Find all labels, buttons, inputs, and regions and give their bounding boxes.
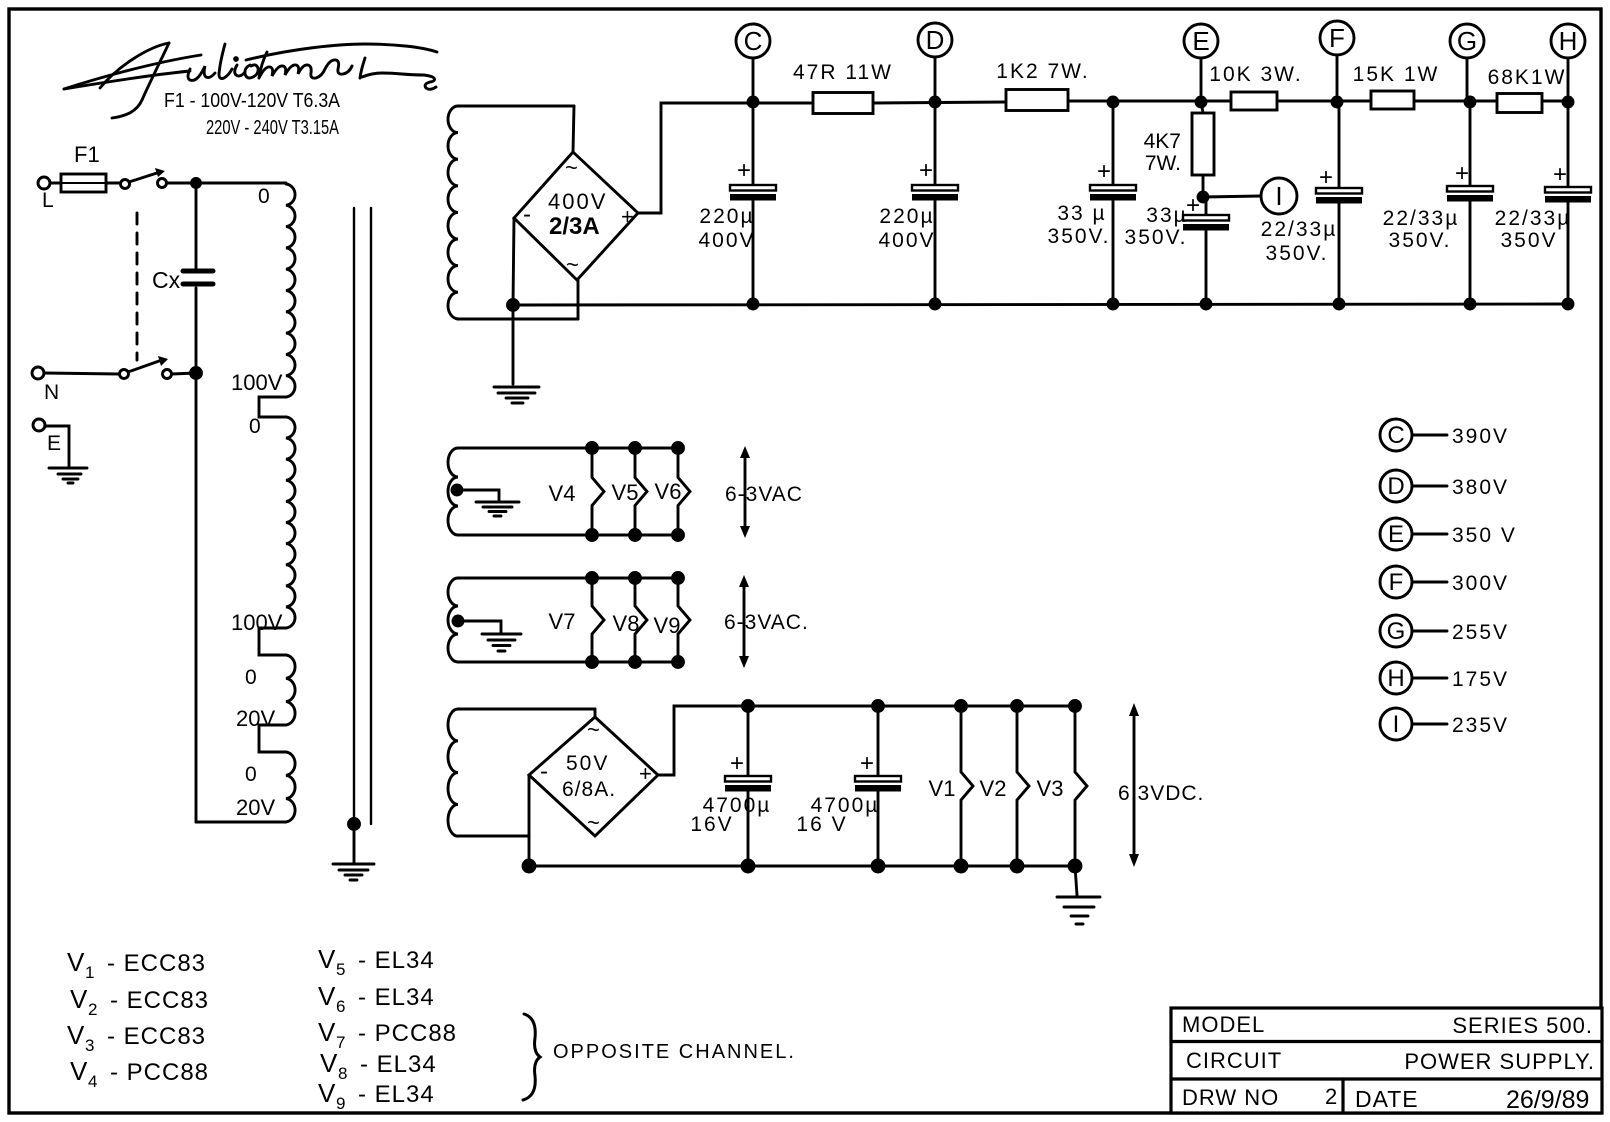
capacitor 22/33u 350V at node H [1495, 101, 1591, 304]
tube list V2 ECC83 [70, 984, 209, 1019]
title block text DRW NO 2 [1182, 1084, 1337, 1110]
heater V9 [654, 578, 690, 662]
node BR2 minus junction [523, 860, 535, 872]
svg-text:26/9/89: 26/9/89 [1506, 1086, 1589, 1114]
title block text CIRCUIT / POWER SUPPLY [1186, 1048, 1595, 1074]
svg-text:V9: V9 [654, 613, 681, 638]
node I [1203, 178, 1297, 214]
svg-text:V5: V5 [612, 480, 639, 505]
svg-text:400V: 400V [548, 189, 607, 214]
title block text DATE 26/9/89 [1355, 1086, 1589, 1114]
svg-text:DRW NO: DRW NO [1182, 1085, 1279, 1110]
svg-text:68K1W: 68K1W [1488, 66, 1567, 89]
heater V4 [549, 448, 604, 535]
node heater2 centre tap [453, 616, 463, 626]
heater V3 [1037, 706, 1087, 866]
svg-text:0: 0 [249, 415, 261, 438]
node H [1551, 24, 1585, 103]
svg-text:9: 9 [336, 1094, 345, 1113]
svg-text:I: I [1275, 181, 1282, 211]
svg-text:V: V [67, 947, 85, 977]
label F1 fuse ratings (handwritten) [164, 90, 341, 139]
svg-text:22/33µ: 22/33µ [1383, 207, 1460, 230]
capacitor 22/33u 350V at node F [1261, 101, 1362, 304]
capacitor 22/33u 350V at node G [1383, 101, 1493, 304]
svg-text:~: ~ [587, 717, 600, 742]
svg-text:- EL34: - EL34 [358, 1081, 435, 1108]
capacitor 220u 400V at node D [878, 102, 958, 304]
svg-text:+: + [737, 157, 751, 184]
svg-text:- PCC88: - PCC88 [110, 1059, 209, 1086]
wire BR2 - down to DC bottom rail [528, 775, 531, 866]
svg-text:H: H [1559, 26, 1578, 56]
svg-text:20V: 20V [236, 795, 275, 820]
svg-text:C: C [744, 26, 763, 56]
transformer LT winding (DC heaters) [448, 709, 595, 836]
heater V7 [549, 578, 604, 662]
tube list V4 PCC88 [70, 1056, 209, 1091]
node heater1 centre tap [452, 485, 462, 495]
svg-text:F: F [1329, 23, 1345, 53]
tube list V9 EL34 [318, 1078, 435, 1113]
dimension arrow 6.3VDC [1118, 703, 1204, 867]
svg-text:V: V [320, 1048, 338, 1078]
wire switch to junction [172, 373, 196, 374]
ground (mains earth) [49, 468, 87, 483]
svg-text:350V.: 350V. [1266, 242, 1329, 265]
wire BR1 - to bottom rail and ground [513, 218, 514, 384]
svg-text:350 V: 350 V [1452, 524, 1517, 547]
bridge rectifier BR2 50V 6/8A [529, 709, 658, 836]
svg-text:-: - [523, 201, 531, 228]
logo text Audio Innovations (handwritten signature) [64, 43, 437, 118]
ground (heater winding 1) [476, 502, 519, 516]
svg-text:33 µ: 33 µ [1057, 202, 1106, 225]
wire DC 0V to ground [1075, 866, 1077, 895]
transformer core [354, 208, 371, 824]
svg-text:0: 0 [258, 185, 270, 208]
svg-text:V2: V2 [980, 776, 1007, 801]
svg-text:235V: 235V [1452, 714, 1509, 737]
svg-text:-: - [540, 758, 548, 785]
svg-text:3: 3 [85, 1036, 94, 1055]
svg-text:DATE: DATE [1355, 1086, 1419, 1112]
heater V5 [612, 448, 647, 535]
junction dot 4K7/I [1198, 192, 1208, 202]
junction dots heater2 [587, 573, 684, 668]
label OPPOSITE CHANNEL [553, 1041, 796, 1063]
svg-text:16 V: 16 V [796, 813, 847, 836]
tube list V8 EL34 [320, 1048, 437, 1083]
svg-text:20V: 20V [236, 706, 275, 731]
heater V1 [929, 706, 973, 866]
svg-text:380V: 380V [1452, 476, 1509, 499]
terminal L [38, 177, 54, 212]
capacitor 33u 350V at node I [1125, 192, 1229, 304]
bridge rectifier BR1 400V 2/3A [514, 106, 638, 319]
switch S1a (live) [121, 168, 167, 189]
svg-text:6: 6 [336, 997, 345, 1016]
svg-text:220µ: 220µ [879, 205, 934, 228]
svg-text:47R 11W: 47R 11W [793, 61, 893, 84]
svg-text:V6: V6 [655, 479, 682, 504]
ground (DC heater 0V) [1057, 897, 1100, 924]
wire BR1 + output to top rail [638, 103, 813, 213]
primary tap labels [231, 185, 283, 820]
svg-text:400V: 400V [698, 229, 755, 252]
resistor 1K2 7W [996, 60, 1089, 111]
svg-text:+: + [639, 761, 652, 786]
svg-text:G: G [1387, 618, 1406, 645]
svg-text:16V: 16V [690, 813, 733, 836]
svg-text:E: E [1192, 26, 1209, 56]
resistor 68K 1W [1488, 66, 1567, 113]
svg-text:10K 3W.: 10K 3W. [1209, 63, 1302, 86]
wire DC bottom rail [529, 865, 1075, 868]
node legend D voltage [1380, 470, 1509, 502]
svg-text:~: ~ [565, 155, 578, 180]
node E [1184, 24, 1218, 103]
svg-text:N: N [44, 381, 59, 404]
heater V6 [655, 448, 690, 535]
svg-text:V: V [67, 1020, 85, 1050]
tube list V6 EL34 [318, 981, 435, 1016]
svg-text:4K7: 4K7 [1144, 130, 1181, 153]
svg-text:7: 7 [336, 1033, 345, 1052]
svg-text:Cx: Cx [152, 267, 181, 293]
svg-text:- ECC83: - ECC83 [107, 1023, 206, 1050]
wire core to ground [353, 824, 356, 862]
transformer HV secondary winding [448, 106, 578, 319]
svg-text:100V: 100V [231, 370, 283, 395]
svg-text:F: F [1389, 569, 1404, 596]
junction dots top rail [748, 97, 1573, 107]
wire N to switch [44, 373, 119, 374]
node legend H voltage [1380, 662, 1509, 694]
svg-text:~: ~ [566, 252, 579, 277]
capacitor Cx [152, 267, 213, 293]
svg-text:6/8A.: 6/8A. [562, 778, 616, 801]
svg-text:V7: V7 [549, 609, 576, 634]
svg-text:SERIES 500.: SERIES 500. [1452, 1013, 1593, 1038]
svg-text:350V: 350V [1500, 229, 1557, 252]
wire E to ground [45, 426, 69, 466]
resistor 10K 3W [1209, 63, 1302, 110]
svg-text:350V.: 350V. [1048, 225, 1111, 248]
node BR1 minus junction [508, 300, 519, 311]
dimension arrow 6.3VAC (2) [724, 575, 809, 668]
svg-text:400V: 400V [878, 229, 935, 252]
svg-text:V8: V8 [613, 611, 640, 636]
svg-text:I: I [1393, 711, 1400, 738]
wire BR2 + to DC top rail [658, 706, 1075, 775]
wire L to fuse [50, 182, 61, 185]
svg-text:4: 4 [88, 1072, 97, 1091]
svg-text:0: 0 [245, 763, 257, 786]
node legend G voltage [1380, 615, 1509, 647]
dashed mechanical link of DPST switch [136, 213, 139, 360]
tube list V3 ECC83 [67, 1020, 206, 1055]
svg-text:D: D [926, 25, 945, 55]
terminal E [33, 419, 61, 455]
wire HV top rail [873, 101, 1568, 103]
brace opposite channel [523, 1014, 540, 1100]
svg-text:100V: 100V [231, 610, 283, 635]
svg-text:- ECC83: - ECC83 [107, 950, 206, 977]
resistor 15K 1W [1353, 63, 1440, 109]
svg-text:255V: 255V [1452, 621, 1509, 644]
node junction N rail [191, 368, 202, 379]
svg-text:V4: V4 [549, 481, 576, 506]
switch S1b (neutral) [120, 356, 172, 379]
svg-text:50V: 50V [566, 752, 609, 775]
svg-text:7W.: 7W. [1145, 152, 1181, 175]
svg-text:E: E [1388, 521, 1404, 548]
svg-text:V: V [318, 981, 336, 1011]
svg-text:V: V [70, 1056, 88, 1086]
wire tap to ground [457, 490, 499, 500]
svg-text:2: 2 [1325, 1084, 1337, 1109]
svg-text:- EL34: - EL34 [358, 947, 435, 974]
title block [1171, 1008, 1602, 1113]
wire vertical live rail through Cx [195, 183, 198, 822]
terminal N [32, 367, 59, 404]
svg-text:390V: 390V [1452, 425, 1509, 448]
heater V2 [980, 706, 1029, 866]
transformer primary winding [196, 184, 295, 822]
svg-text:33µ: 33µ [1146, 204, 1187, 227]
svg-text:15K 1W: 15K 1W [1353, 63, 1440, 86]
svg-text:MODEL: MODEL [1182, 1012, 1265, 1037]
transformer heater winding 2 (V7-V9) [448, 578, 680, 662]
svg-text:V: V [318, 944, 336, 974]
svg-text:2: 2 [88, 1000, 97, 1019]
svg-text:V1: V1 [929, 776, 956, 801]
svg-text:E: E [47, 432, 61, 455]
svg-text:22/33µ: 22/33µ [1261, 218, 1338, 241]
svg-text:- ECC83: - ECC83 [110, 987, 209, 1014]
svg-text:OPPOSITE CHANNEL.: OPPOSITE CHANNEL. [553, 1041, 796, 1063]
svg-text:+: + [1097, 158, 1111, 185]
svg-text:H: H [1387, 665, 1404, 692]
svg-text:- EL34: - EL34 [358, 984, 435, 1011]
svg-text:F1 - 100V-120V T6.3A: F1 - 100V-120V T6.3A [164, 90, 341, 112]
svg-text:1K2 7W.: 1K2 7W. [996, 60, 1089, 83]
node C [736, 24, 770, 103]
ground (HV supply 0V) [494, 387, 539, 403]
junction dots bottom rail [748, 299, 1573, 309]
tube list V7 PCC88 [318, 1017, 457, 1052]
node legend F voltage [1380, 566, 1509, 598]
ground (heater winding 2) [482, 634, 521, 651]
junction dots DC rails [742, 701, 1081, 873]
heater V8 [613, 578, 647, 662]
svg-text:350V.: 350V. [1389, 229, 1452, 252]
svg-text:V: V [318, 1078, 336, 1108]
node D [918, 23, 952, 103]
svg-text:+: + [730, 750, 744, 777]
fuse F1 [61, 142, 106, 192]
node legend C voltage [1380, 419, 1509, 451]
svg-text:F1: F1 [74, 142, 100, 167]
node legend I voltage [1380, 708, 1509, 740]
tube list V1 ECC83 [67, 947, 206, 982]
svg-text:2/3A: 2/3A [549, 213, 600, 240]
svg-text:6-3VAC.: 6-3VAC. [724, 611, 809, 634]
svg-text:C: C [1387, 422, 1404, 449]
capacitor 4700u 16V first [690, 706, 771, 866]
node legend E voltage [1380, 518, 1517, 550]
wire switch to primary junction [167, 182, 286, 185]
node F [1320, 21, 1354, 103]
svg-text:D: D [1387, 473, 1404, 500]
svg-text:+: + [860, 750, 874, 777]
svg-text:22/33µ: 22/33µ [1495, 207, 1572, 230]
svg-text:0: 0 [245, 666, 257, 689]
dimension arrow 6.3VAC (1) [725, 446, 803, 538]
svg-text:- PCC88: - PCC88 [358, 1020, 457, 1047]
svg-text:+: + [919, 157, 933, 184]
svg-text:+: + [1319, 164, 1333, 191]
node core earth junction [349, 819, 360, 830]
svg-text:6-3VAC: 6-3VAC [725, 483, 803, 506]
tube list V5 EL34 [318, 944, 435, 979]
svg-text:1: 1 [85, 963, 94, 982]
svg-text:350V.: 350V. [1125, 226, 1188, 249]
svg-text:+: + [1553, 161, 1567, 188]
resistor 47R 11W [793, 61, 893, 114]
node junction L rail [192, 179, 201, 188]
capacitor 4700u 16V second [796, 706, 901, 866]
transformer heater winding 1 (V4-V6) [448, 448, 680, 535]
svg-text:V: V [318, 1017, 336, 1047]
svg-text:+: + [621, 204, 634, 229]
title block text MODEL / SERIES 500 [1182, 1012, 1593, 1038]
ground (core/screen) [333, 864, 374, 880]
svg-text:220V - 240V T3.15A: 220V - 240V T3.15A [206, 117, 339, 139]
wire HV bottom rail [513, 304, 1568, 305]
svg-text:CIRCUIT: CIRCUIT [1186, 1048, 1282, 1073]
svg-text:V3: V3 [1037, 776, 1064, 801]
svg-text:G: G [1457, 26, 1477, 56]
svg-text:V: V [70, 984, 88, 1014]
junction dots heater1 [587, 443, 684, 541]
resistor 4K7 7W (vertical) [1144, 101, 1214, 197]
svg-text:5: 5 [336, 960, 345, 979]
svg-text:~: ~ [587, 810, 600, 835]
capacitor 33u 350V first [1048, 101, 1136, 304]
node G [1450, 24, 1484, 103]
wire tap to ground [458, 621, 501, 632]
svg-text:175V: 175V [1452, 668, 1509, 691]
svg-text:6.3VDC.: 6.3VDC. [1118, 782, 1204, 805]
svg-text:300V: 300V [1452, 572, 1509, 595]
capacitor 220u 400V at node C [698, 103, 776, 304]
svg-text:+: + [1455, 160, 1469, 187]
svg-text:8: 8 [338, 1064, 347, 1083]
svg-text:220µ: 220µ [699, 205, 754, 228]
svg-text:- EL34: - EL34 [360, 1051, 437, 1078]
wire fuse to switch [106, 182, 120, 185]
svg-text:POWER SUPPLY.: POWER SUPPLY. [1404, 1049, 1595, 1074]
svg-text:L: L [42, 189, 54, 212]
